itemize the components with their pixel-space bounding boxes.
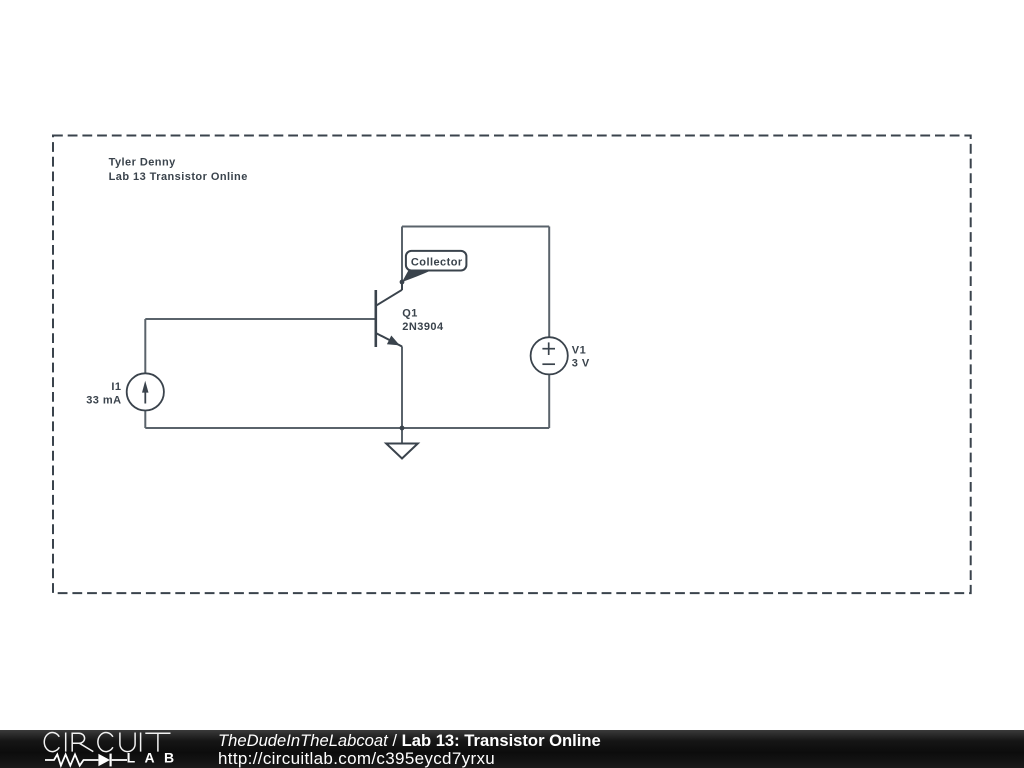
svg-text:3 V: 3 V: [572, 358, 590, 370]
ground: [386, 444, 418, 459]
wire V1 top: [548, 227, 550, 338]
transistor Q1 2N3904: [376, 281, 402, 347]
voltage source V1: [531, 337, 568, 374]
node bottom junction dot: [400, 426, 405, 431]
svg-text:V1: V1: [572, 344, 586, 356]
wire bottom (I1 to V1): [145, 427, 549, 429]
svg-text:2N3904: 2N3904: [402, 321, 444, 333]
footer line 2: url: [218, 749, 495, 768]
svg-text:I1: I1: [111, 381, 121, 393]
svg-text:Tyler Denny: Tyler Denny: [109, 156, 177, 168]
svg-text:Collector: Collector: [411, 257, 463, 269]
wire ground stub: [401, 428, 403, 444]
svg-text:LAB: LAB: [127, 750, 184, 766]
wire V1 bottom: [548, 374, 550, 428]
wire collector vertical: [401, 227, 403, 283]
wire I1 bottom vertical: [144, 410, 146, 428]
footer line 1: author / title: [218, 731, 601, 751]
svg-text:33 mA: 33 mA: [86, 394, 121, 406]
current source I1: [127, 373, 164, 410]
footer bar: [0, 730, 1024, 768]
wire I1 top vertical: [144, 319, 146, 373]
wire base (I1 to Q1): [145, 318, 374, 320]
flag Collector callout: [402, 251, 466, 282]
schematic boundary (dashed): [53, 136, 971, 594]
wire emitter vertical: [401, 346, 403, 428]
wire top (collector node to V1): [402, 226, 549, 228]
CircuitLab logo: [0, 729, 200, 768]
svg-text:Lab 13 Transistor Online: Lab 13 Transistor Online: [109, 171, 248, 183]
node collector junction dot: [400, 280, 405, 285]
svg-text:Q1: Q1: [402, 308, 418, 320]
